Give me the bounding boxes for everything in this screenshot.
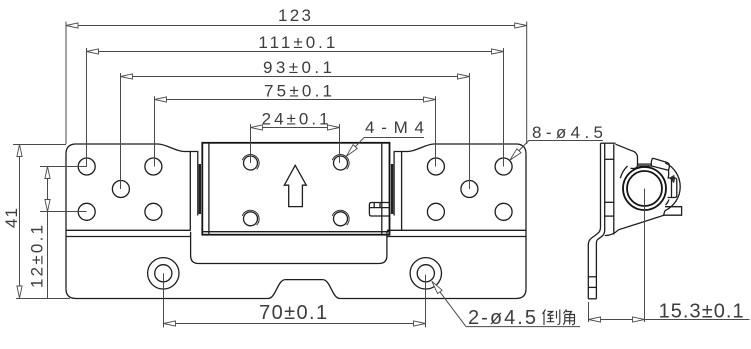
- right hinge pin bar: [391, 164, 393, 214]
- flange ticks: [605, 158, 614, 160]
- leader 2-4.5: [432, 281, 580, 326]
- arrow leader 2: [432, 281, 442, 293]
- block tapped holes (4 x M4): [242, 154, 349, 225]
- leader 4-M4: [346, 138, 424, 157]
- central damper block: [202, 143, 389, 235]
- clamp outer arc right: [665, 163, 680, 211]
- left mounting plate outline: [66, 144, 198, 289]
- right plate tab edges at block: [401, 152, 403, 231]
- svg-text:4-M4: 4-M4: [365, 118, 424, 137]
- clamp top lug: [651, 158, 669, 170]
- arrow 15.3 left: [589, 317, 601, 322]
- leader 8-4.5: [510, 141, 603, 161]
- lower plate bottom edge with notch: [66, 280, 526, 299]
- chamfered holes (2 x 4.5): [148, 258, 442, 289]
- wall outer line: [588, 143, 600, 299]
- arrow 24 left: [251, 125, 263, 130]
- plate bend line lower: [66, 236, 191, 238]
- arrow leader M4: [346, 145, 357, 157]
- wall top cap: [601, 142, 616, 144]
- dim 70 line: [164, 273, 426, 327]
- arrow 15.3 right: [633, 317, 645, 322]
- dim 12 line: [40, 167, 87, 299]
- arrow 123 left: [66, 23, 78, 28]
- hood diagonal: [616, 144, 638, 168]
- arrow 75 left: [155, 97, 167, 102]
- arrow 12 bottom: [45, 200, 50, 212]
- hanzi dao: [543, 310, 560, 326]
- dim 15.3 line: [589, 189, 750, 323]
- svg-text:15.3±0.1: 15.3±0.1: [659, 300, 744, 322]
- svg-text:70±0.1: 70±0.1: [259, 302, 327, 324]
- right mounting plate outline: [394, 144, 526, 289]
- lug top arc: [666, 200, 670, 206]
- body bottom diagonal: [605, 211, 665, 236]
- dim 41 line: [13, 145, 70, 299]
- embossed up-arrow on block: [284, 165, 306, 206]
- latch clip on block right: [369, 203, 389, 217]
- arrow 70 left: [164, 321, 176, 326]
- clamp seam lines: [638, 163, 652, 165]
- arrow leader 8: [510, 149, 521, 160]
- dim 24 line: [251, 124, 340, 163]
- svg-text:41: 41: [2, 208, 21, 228]
- svg-text:2-ø4.5: 2-ø4.5: [468, 307, 536, 329]
- arrow 41 top: [17, 145, 22, 157]
- hinge cup ring: [623, 167, 666, 210]
- left hinge pin bar: [199, 164, 201, 214]
- clamp dark wedge: [669, 175, 675, 183]
- arrow 111 left: [87, 49, 99, 54]
- arrow 123 right: [515, 23, 527, 28]
- hanzi jiao: [563, 310, 575, 325]
- clamp inner arc right: [667, 171, 669, 178]
- arrow 75 right: [424, 97, 436, 102]
- dim 75 line: [155, 96, 436, 166]
- left plate tab edges at block: [189, 152, 191, 231]
- plate screw holes (8 x 4.5): [78, 158, 512, 220]
- foot ticks: [588, 276, 596, 278]
- cover plate below block: [191, 232, 387, 264]
- plate bend line upper: [66, 229, 191, 231]
- arrow 70 right: [414, 321, 426, 326]
- lower right lug: [663, 207, 682, 216]
- svg-text:12±0.1: 12±0.1: [28, 225, 47, 288]
- arrow 93 left: [121, 74, 133, 79]
- dim 123 line: [66, 22, 527, 145]
- arrow 93 right: [458, 74, 470, 79]
- arrow 12 top: [45, 167, 50, 179]
- arrow 24 right: [328, 125, 340, 130]
- dim 93 line: [121, 73, 470, 189]
- svg-text:123: 123: [278, 6, 311, 25]
- arrow 111 right: [492, 49, 504, 54]
- arrow 41 bottom: [17, 286, 22, 298]
- clamp outer arc upper-left: [620, 166, 627, 178]
- dim 111 line: [87, 48, 504, 167]
- clamp right block: [668, 178, 677, 198]
- wall second line: [596, 143, 604, 299]
- wall inner flange line: [613, 144, 615, 234]
